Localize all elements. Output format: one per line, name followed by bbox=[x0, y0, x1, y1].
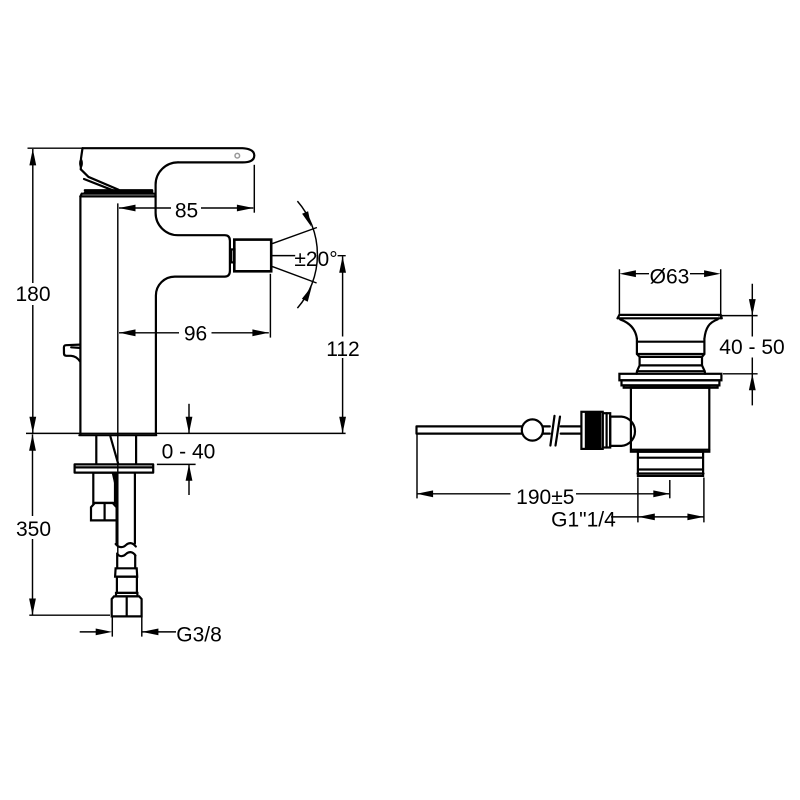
flange top extension line bbox=[157, 463, 196, 465]
cartridge ring lines bbox=[80, 190, 155, 196]
drain plug head plate bbox=[619, 314, 720, 316]
hose hex nut G3/8 bbox=[112, 596, 142, 616]
hose fitting middle bbox=[117, 577, 137, 593]
dimension 112 line bbox=[342, 256, 344, 433]
dimension 0-40 bottom arrow bbox=[188, 465, 190, 496]
hose fitting band bbox=[116, 593, 137, 597]
drain lower threaded section bbox=[638, 452, 703, 476]
faucet lever underside slants bbox=[81, 169, 119, 190]
faucet lever hole bbox=[235, 153, 240, 158]
swivel arc arrowheads bbox=[302, 211, 311, 227]
swivel arc bbox=[297, 201, 317, 308]
dimension 96 arrows bbox=[119, 329, 136, 336]
hose collar bbox=[115, 568, 137, 576]
pop-up rod diagonal lower bbox=[113, 474, 117, 492]
knurled adjuster outer bbox=[581, 412, 602, 449]
svg-text:112: 112 bbox=[326, 338, 359, 361]
drain dimension Ø63 extension lines bbox=[619, 269, 720, 318]
dimension 180 line bbox=[32, 149, 34, 433]
lever end extension line bbox=[253, 165, 255, 213]
rod break slashes bbox=[550, 416, 560, 446]
dimension 112 arrows bbox=[339, 256, 346, 273]
faucet lever left edge bbox=[81, 148, 83, 169]
dimension 190±5 arrows bbox=[417, 490, 434, 497]
dimension 350 bottom extension line bbox=[29, 614, 110, 616]
svg-text:Ø63: Ø63 bbox=[650, 265, 690, 288]
adjuster collar bbox=[603, 413, 611, 447]
spout swivel lower line bbox=[272, 267, 316, 283]
svg-text:96: 96 bbox=[184, 323, 207, 346]
svg-text:180: 180 bbox=[15, 283, 50, 306]
faucet lever back nub bbox=[79, 159, 83, 168]
hose break waves bbox=[116, 543, 136, 547]
pop-up rod knob bbox=[64, 345, 80, 362]
dimension G3/8 line and arrows bbox=[80, 631, 176, 633]
rod ball joint bbox=[522, 419, 543, 440]
drain plug grooved stem bbox=[637, 339, 706, 374]
aerator extension line bbox=[269, 274, 271, 338]
faucet lever handle outline bbox=[83, 148, 255, 162]
dimension 190±5 line bbox=[417, 493, 670, 495]
supply hose lower bbox=[117, 555, 135, 569]
dimension 0-40 top arrow bbox=[188, 404, 190, 433]
faucet body right contour with spout arm bbox=[156, 162, 230, 434]
mounting flange plate bbox=[75, 464, 154, 472]
drain body bbox=[631, 388, 709, 452]
aerator body bbox=[234, 240, 271, 272]
svg-text:350: 350 bbox=[16, 518, 51, 541]
svg-text:±20°: ±20° bbox=[294, 248, 337, 271]
threaded shank bbox=[96, 437, 136, 465]
shank hex nut bbox=[91, 503, 117, 520]
pop-up rod horizontal bbox=[417, 426, 582, 433]
shank mounting nut bbox=[93, 473, 115, 503]
svg-text:190±5: 190±5 bbox=[516, 486, 574, 509]
svg-text:G1"1/4: G1"1/4 bbox=[551, 509, 616, 532]
dimension 85 arrows bbox=[119, 205, 136, 212]
dimension 40-50 arrows bbox=[749, 299, 756, 316]
svg-text:G3/8: G3/8 bbox=[176, 624, 222, 647]
dimension G1"1/4 line bbox=[611, 516, 704, 518]
dimension G3/8 extension lines bbox=[112, 616, 142, 636]
dimension 96 line bbox=[119, 332, 269, 334]
faucet body left edge bbox=[79, 196, 81, 434]
svg-text:0 - 40: 0 - 40 bbox=[162, 440, 216, 463]
column axis extension line bbox=[117, 203, 119, 556]
dimension 180 top extension line bbox=[28, 147, 83, 149]
drain center tick bbox=[669, 480, 671, 498]
rod bell housing bbox=[610, 417, 635, 446]
drain flange plates bbox=[619, 374, 721, 381]
svg-text:85: 85 bbox=[175, 200, 198, 223]
aerator connector bbox=[231, 249, 234, 262]
dimension 350 arrows bbox=[29, 434, 36, 451]
svg-text:40 - 50: 40 - 50 bbox=[719, 336, 784, 359]
dimension 40-50 extension lines bbox=[718, 316, 758, 374]
mounting surface extension line bbox=[26, 432, 346, 434]
faucet base gasket line bbox=[79, 434, 156, 436]
dimension Ø63 arrows bbox=[619, 270, 636, 277]
dimension 180 arrows bbox=[29, 149, 36, 166]
knurled adjuster black fill bbox=[585, 412, 601, 449]
pop-up rod diagonal upper bbox=[110, 437, 118, 464]
drain plug trumpet flare bbox=[620, 319, 718, 338]
dimension G1"1/4 extension lines bbox=[638, 478, 704, 523]
dimension 190±5 extension line bbox=[416, 435, 418, 499]
dimension Ø63 line bbox=[635, 273, 705, 275]
dimension G1"1/4 arrows bbox=[638, 514, 655, 521]
spout swivel upper line bbox=[272, 228, 317, 244]
dimension 85 line bbox=[119, 207, 253, 209]
dimension 40-50 line bbox=[751, 284, 753, 406]
supply hose upper bbox=[117, 473, 135, 544]
spout axis middle line bbox=[272, 255, 345, 257]
dimension 350 line bbox=[32, 434, 34, 615]
